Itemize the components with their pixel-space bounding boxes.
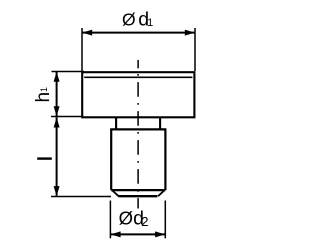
svg-text:Ød: Ød bbox=[122, 8, 149, 30]
svg-text:2: 2 bbox=[141, 214, 148, 229]
svg-text:Ød: Ød bbox=[119, 207, 144, 229]
svg-text:1: 1 bbox=[147, 17, 153, 29]
